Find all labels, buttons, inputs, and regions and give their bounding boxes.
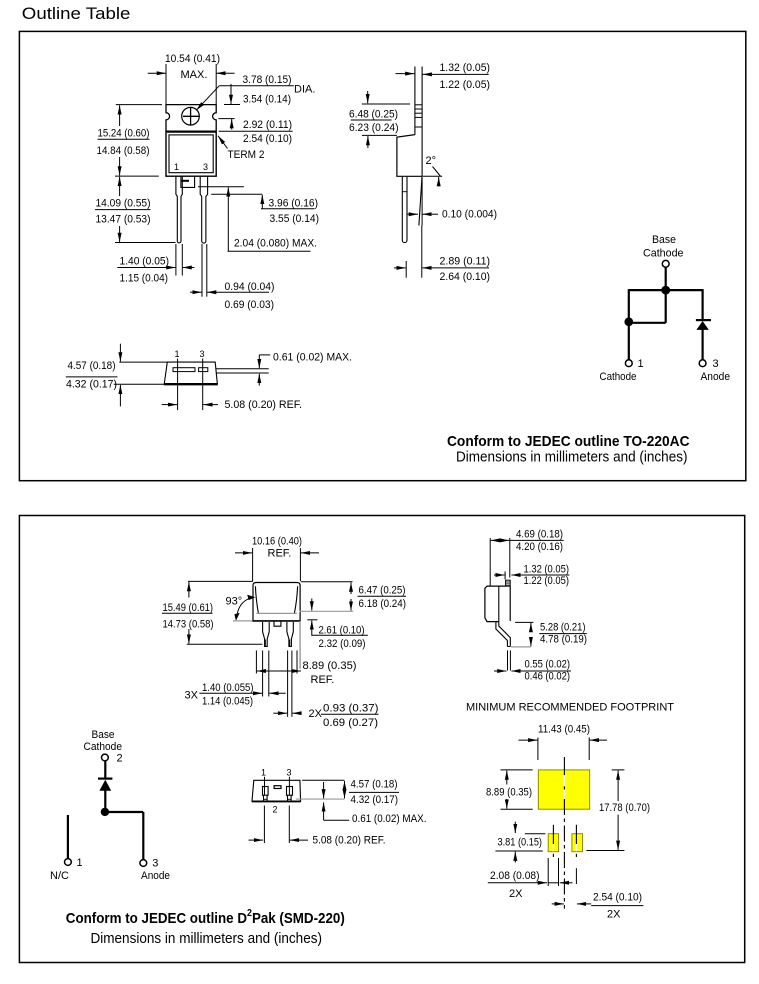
node junction dot (top) [661, 286, 670, 295]
svg-text:14.09 (0.55): 14.09 (0.55) [96, 198, 151, 210]
dimension 2.89/2.64 lead to tab offset (side view) [394, 226, 490, 284]
reference line A under stub [198, 186, 244, 188]
svg-text:2.54 (0.10): 2.54 (0.10) [243, 133, 292, 145]
dimension 15.24/14.84 overall height [97, 105, 163, 176]
D2Pak front view: body bottom edge [252, 620, 300, 622]
dimension 1.32/1.22 tab edge thickness [494, 564, 569, 587]
svg-text:0.94 (0.04): 0.94 (0.04) [225, 281, 275, 293]
svg-text:Anode: Anode [701, 371, 731, 383]
svg-text:6.18 (0.24): 6.18 (0.24) [359, 598, 407, 610]
D2Pak side view: gull lead [496, 622, 510, 647]
svg-text:3: 3 [152, 858, 158, 870]
page title "Outline Table" [22, 5, 131, 23]
svg-text:REF.: REF. [311, 674, 335, 686]
svg-text:2°: 2° [426, 155, 437, 167]
svg-text:4.69 (0.18): 4.69 (0.18) [516, 529, 563, 541]
dimension 14.09/13.47 body+lead length [95, 176, 176, 242]
dimension 10.16 (0.40) REF. tab width [235, 536, 319, 582]
lead 1 (front view) [176, 177, 182, 243]
dimension 0.61 (0.02) MAX. tongue thickness [259, 351, 352, 385]
svg-text:2: 2 [273, 805, 278, 815]
svg-text:MAX.: MAX. [181, 69, 208, 81]
dimension 2X 2.08 (0.08) pad width [488, 858, 573, 900]
svg-text:2X: 2X [607, 908, 621, 920]
D2Pak lead 1 tip ticks [265, 640, 267, 647]
node junction dot [101, 808, 109, 816]
svg-text:1: 1 [175, 349, 180, 359]
bottom view seating ref line [296, 798, 344, 800]
D2Pak lead 3 tip ticks [289, 640, 291, 647]
svg-text:2.61 (0.10): 2.61 (0.10) [319, 625, 365, 637]
svg-text:5.08 (0.20) REF.: 5.08 (0.20) REF. [225, 399, 303, 411]
svg-text:6.48 (0.25): 6.48 (0.25) [349, 109, 398, 121]
TO-220AC outline frame box [19, 31, 745, 480]
side view lead [402, 177, 407, 243]
TO-220 front view: mounting tab with notches [166, 105, 216, 131]
dimension 2.61/2.32 body lip [307, 599, 368, 651]
svg-text:2.64 (0.10): 2.64 (0.10) [440, 271, 491, 283]
svg-text:3.54 (0.14): 3.54 (0.14) [243, 94, 291, 106]
svg-text:0.93 (0.37): 0.93 (0.37) [323, 703, 379, 715]
svg-text:1: 1 [174, 162, 179, 172]
side view seating plane line [511, 646, 531, 648]
svg-text:0.69 (0.03): 0.69 (0.03) [225, 299, 275, 311]
dimension 5.08 (0.20) REF. slot spacing [162, 385, 302, 411]
svg-text:2.89 (0.11): 2.89 (0.11) [440, 256, 491, 268]
D2Pak bottom view: body trapezoid [252, 780, 301, 801]
D2Pak lead 1 (front view) [263, 622, 270, 647]
svg-text:3: 3 [287, 768, 292, 778]
svg-text:3.81 (0.15): 3.81 (0.15) [498, 836, 543, 848]
dimension 3.78/3.54 DIA. hole leader [196, 74, 315, 110]
2 degree angle annotation (side view) [423, 155, 442, 187]
TO-220 front view: mounting hole [182, 107, 200, 125]
svg-text:3: 3 [200, 349, 205, 359]
terminal labels 1 / Cathode [600, 358, 644, 383]
dimension 2.04 (0.080) MAX. [228, 187, 318, 251]
svg-text:0.10 (0.004): 0.10 (0.004) [442, 209, 497, 221]
svg-text:17.78 (0.70): 17.78 (0.70) [599, 802, 650, 814]
diode D1 (cathode bar + triangle) [696, 320, 711, 330]
bottom view lead 1 [263, 787, 269, 802]
TO-220 front view: body [166, 131, 216, 176]
dimension 5.08 (0.20) REF. (D2Pak bottom view) [249, 806, 386, 847]
bottom view lead 3 [287, 787, 293, 802]
D2Pak side view: tab stub [506, 580, 511, 586]
svg-text:1.22 (0.05): 1.22 (0.05) [524, 575, 570, 587]
D2Pak front view: tab inner bottom line [256, 612, 297, 614]
dimension 15.49/14.73 overall height [162, 581, 263, 644]
footprint: lead pad left (yellow) [548, 834, 558, 852]
bottom view labels 1 3 2 [261, 768, 292, 815]
svg-text:11.43 (0.45): 11.43 (0.45) [538, 724, 590, 736]
terminal labels 3 / Anode [701, 358, 731, 383]
dimension 2X 2.54 (0.10) pad pitch [552, 868, 644, 920]
dimension 8.89 (0.35) pad height [486, 770, 533, 809]
schematic 2: terminal 1 circle [65, 859, 72, 866]
svg-text:3X: 3X [185, 690, 199, 702]
svg-text:Dimensions in millimeters and: Dimensions in millimeters and (inches) [456, 449, 688, 466]
svg-text:Dimensions in millimeters and: Dimensions in millimeters and (inches) [91, 930, 323, 947]
conform caption box1 [447, 433, 690, 465]
svg-text:Base: Base [652, 234, 676, 246]
svg-text:4.32 (0.17): 4.32 (0.17) [66, 379, 117, 391]
svg-text:15.49 (0.61): 15.49 (0.61) [163, 602, 214, 614]
dimension 1.40/1.15 lead width with extension lines [117, 244, 194, 285]
schematic 2: terminal 3 circle [140, 860, 147, 867]
svg-text:2X: 2X [309, 708, 323, 720]
dimension 4.69/4.20 overall depth [490, 529, 563, 586]
svg-text:3.96 (0.16): 3.96 (0.16) [269, 198, 319, 210]
dimension 8.89 (0.35) REF. body width [256, 650, 356, 686]
svg-text:1.14 (0.045): 1.14 (0.045) [202, 695, 253, 707]
svg-text:13.47 (0.53): 13.47 (0.53) [96, 214, 151, 226]
dimension 2.92/2.54 notch depth [218, 119, 292, 145]
svg-text:10.54 (0.41): 10.54 (0.41) [165, 53, 220, 65]
bottom view center slot (terminal 2) [274, 786, 281, 789]
svg-text:1.40 (0.05): 1.40 (0.05) [120, 256, 170, 268]
svg-text:Cathode: Cathode [84, 741, 123, 753]
dimension 6.47/6.18 tab height [300, 582, 407, 612]
svg-text:1.32 (0.05): 1.32 (0.05) [440, 62, 491, 74]
bottom view pin labels 1 and 3 [175, 349, 205, 384]
svg-text:Outline Table: Outline Table [22, 5, 131, 23]
svg-text:4.57 (0.18): 4.57 (0.18) [68, 360, 116, 372]
svg-text:3.78 (0.15): 3.78 (0.15) [243, 74, 292, 86]
D2Pak front view: right side extension (tab edge) [299, 621, 301, 669]
svg-text:2: 2 [117, 752, 123, 764]
svg-text:2.54 (0.10): 2.54 (0.10) [593, 892, 642, 904]
dimension 11.43 (0.45) pad width [519, 724, 608, 760]
wire from diode down to terminal 3 [701, 329, 703, 359]
dimension 0.94/0.69 lead tip width with extension lines [190, 244, 274, 311]
wire loop left branch [629, 289, 666, 323]
svg-text:5.28 (0.21): 5.28 (0.21) [540, 622, 586, 634]
bottom view slot 1 [173, 368, 195, 372]
svg-text:0.46 (0.02): 0.46 (0.02) [525, 670, 571, 682]
svg-text:0.69 (0.27): 0.69 (0.27) [323, 717, 378, 729]
bottom view top ref line [302, 779, 344, 781]
svg-text:15.24 (0.60): 15.24 (0.60) [98, 128, 150, 140]
dimension 2X 0.93/0.69 lead thickness [273, 651, 378, 730]
dimension 0.61 (0.02) MAX. (D2Pak bottom view) [324, 782, 427, 825]
svg-text:5.08 (0.20) REF.: 5.08 (0.20) REF. [313, 835, 386, 847]
svg-text:1.32 (0.05): 1.32 (0.05) [524, 564, 570, 576]
svg-text:2.92 (0.11): 2.92 (0.11) [243, 119, 292, 131]
dimension 6.48/6.23 serrated band (side view) [349, 91, 410, 148]
svg-text:Conform to JEDEC outline D2Pak: Conform to JEDEC outline D2Pak (SMD-220) [66, 908, 345, 927]
footprint: main tab pad (yellow) [538, 770, 589, 809]
dimension 0.10 (0.004) draft offset (side view) [407, 209, 498, 221]
schematic 2: terminal 2 circle [102, 754, 109, 761]
svg-text:2.08 (0.08): 2.08 (0.08) [490, 870, 540, 882]
svg-text:1: 1 [261, 768, 266, 778]
svg-text:3: 3 [203, 162, 208, 172]
svg-text:3.55 (0.14): 3.55 (0.14) [270, 213, 320, 225]
svg-text:0.55 (0.02): 0.55 (0.02) [525, 659, 571, 671]
svg-text:14.73 (0.58): 14.73 (0.58) [163, 619, 214, 631]
TERM 2 leader [218, 136, 265, 161]
svg-text:1: 1 [77, 857, 83, 869]
schematic: terminal 1 circle [625, 360, 632, 367]
dimension 5.28/4.78 lead standoff [515, 622, 587, 647]
svg-text:2.32 (0.09): 2.32 (0.09) [319, 638, 366, 650]
wire right branch down to diode [701, 289, 703, 319]
D2Pak center stub (terminal 2 cut) [274, 621, 281, 626]
svg-text:8.89 (0.35): 8.89 (0.35) [486, 786, 532, 798]
TO-220 side view: tab strip [415, 67, 422, 175]
svg-text:MINIMUM RECOMMENDED FOOTPRINT: MINIMUM RECOMMENDED FOOTPRINT [466, 701, 674, 713]
footprint: main centerline (dash-dot) [563, 757, 565, 909]
horizontal wire at junction [629, 289, 703, 291]
dimension 3.96/3.55 lead shoulder [211, 194, 319, 225]
lead 3 (front view) [200, 177, 207, 244]
svg-text:Cathode: Cathode [600, 371, 637, 383]
dimension 3.54 tick and down arrow at tab top [224, 84, 240, 105]
schematic: terminal 2 (base/cathode) circle [662, 260, 669, 267]
dimension 3.81 (0.15) lead pad height [495, 822, 545, 863]
svg-text:0.61 (0.02) MAX.: 0.61 (0.02) MAX. [352, 813, 427, 825]
N/C stub wire [67, 815, 69, 859]
dimension 10.54 (0.41) MAX. top width [148, 53, 235, 104]
wire junction right then down to terminal 3 [105, 812, 143, 860]
svg-text:6.47 (0.25): 6.47 (0.25) [359, 585, 406, 597]
svg-text:4.78 (0.19): 4.78 (0.19) [540, 633, 587, 645]
terminal labels 3 / Anode [141, 858, 170, 883]
svg-text:14.84 (0.58): 14.84 (0.58) [97, 145, 150, 157]
svg-text:2X: 2X [509, 888, 523, 900]
svg-text:2.04 (0.080) MAX.: 2.04 (0.080) MAX. [234, 238, 317, 250]
svg-text:4.20 (0.16): 4.20 (0.16) [516, 541, 563, 553]
svg-text:TERM 2: TERM 2 [228, 149, 265, 161]
svg-text:Anode: Anode [141, 870, 170, 882]
svg-text:N/C: N/C [50, 870, 69, 882]
dimension 4.57/4.32 bottom view height [66, 344, 168, 407]
TO-220 bottom view: body trapezoid [164, 362, 218, 384]
D2Pak front view: right mold groove [294, 586, 297, 613]
side view serration hatch marks [415, 105, 422, 127]
dimension 1.32/1.22 tab thickness (side view) [396, 62, 491, 91]
svg-text:1.40 (0.055): 1.40 (0.055) [202, 682, 254, 694]
svg-text:10.16 (0.40): 10.16 (0.40) [252, 536, 302, 548]
terminal 2 center stub (front view) [181, 177, 195, 188]
dimension 0.55/0.46 foot thickness [494, 650, 571, 682]
svg-text:Base: Base [92, 729, 115, 741]
schematic: terminal 3 circle [699, 360, 706, 367]
wire terminal 2 to diode [104, 761, 106, 778]
schematic: Base Cathode label [643, 234, 684, 259]
diode D2 (cathode bar + triangle pointing up) [98, 779, 112, 791]
D2Pak lead 3 (front view) [287, 622, 293, 647]
svg-text:1.15 (0.04): 1.15 (0.04) [120, 273, 169, 285]
svg-text:1: 1 [638, 358, 644, 370]
svg-text:DIA.: DIA. [294, 84, 315, 96]
svg-text:Cathode: Cathode [643, 247, 684, 259]
svg-text:4.32 (0.17): 4.32 (0.17) [351, 794, 399, 806]
side view 2-degree draft edge [419, 175, 422, 226]
svg-text:6.23 (0.24): 6.23 (0.24) [349, 122, 399, 134]
dimension 3X 1.40/1.14 lead width [185, 651, 286, 708]
bottom view tongue (lead edge-on) [216, 369, 269, 373]
footprint: left pad centerline [552, 825, 554, 857]
footprint: lead pad right (yellow) [572, 834, 583, 852]
93 degree angle annotation [226, 595, 256, 621]
footprint: right pad centerline [575, 825, 577, 857]
bottom view slot 3 [199, 368, 208, 372]
D2Pak front view: tab outline [253, 583, 300, 621]
D2Pak side view: body [485, 586, 510, 622]
dimension 4.57/4.32 (D2Pak bottom view) [345, 778, 400, 806]
D2Pak outline frame box [19, 516, 744, 963]
svg-text:1.22 (0.05): 1.22 (0.05) [440, 79, 491, 91]
dimension 17.78 (0.70) overall footprint height [586, 770, 650, 851]
conform caption box2 [66, 908, 345, 947]
wire from left junction down to terminal 1 [628, 322, 630, 360]
svg-text:4.57 (0.18): 4.57 (0.18) [351, 778, 398, 790]
svg-text:8.89 (0.35): 8.89 (0.35) [303, 660, 357, 672]
wire from terminal 2 down to junction [665, 268, 667, 291]
svg-text:93°: 93° [226, 596, 243, 608]
terminal labels 1 / N/C [50, 857, 83, 882]
svg-text:0.61 (0.02) MAX.: 0.61 (0.02) MAX. [273, 351, 352, 363]
svg-text:3: 3 [713, 358, 719, 370]
schematic 2: Base Cathode label [84, 729, 123, 753]
node junction dot (left) [624, 317, 633, 326]
side view body [397, 135, 422, 177]
wire diode to junction [104, 790, 106, 812]
svg-text:REF.: REF. [268, 548, 292, 560]
D2Pak front view: left mold groove [255, 586, 258, 613]
